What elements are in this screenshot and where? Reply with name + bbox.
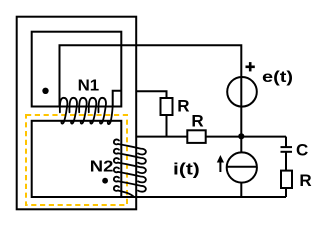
svg-text:C: C [296,140,308,159]
svg-text:R: R [191,111,203,130]
svg-text:e(t): e(t) [262,69,293,86]
svg-text:i(t): i(t) [173,161,200,179]
svg-text:R: R [177,97,189,116]
svg-text:N1: N1 [78,78,100,95]
svg-text:N2: N2 [90,158,114,175]
svg-text:R: R [299,171,311,190]
